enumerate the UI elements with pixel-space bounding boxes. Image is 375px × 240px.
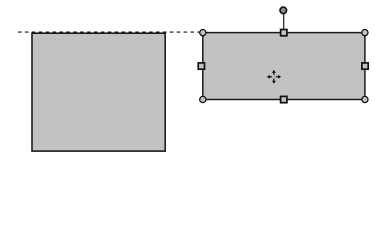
handle right-middle (square) <box>362 63 368 69</box>
rotation knob <box>280 7 287 14</box>
left square shape <box>32 33 165 151</box>
down arrow <box>272 78 276 83</box>
handle top-left (circle) <box>200 29 206 35</box>
handle left-middle (square) <box>198 63 204 69</box>
left arrow <box>267 75 272 79</box>
handle bottom-middle (square) <box>281 96 287 102</box>
up arrow <box>272 70 276 75</box>
guide dashed line <box>18 31 199 33</box>
canvas background <box>0 0 375 160</box>
right arrow <box>276 75 281 79</box>
move cursor (4-way arrows) <box>267 70 281 84</box>
handle bottom-left (circle) <box>200 96 206 102</box>
handle bottom-right (circle) <box>362 96 368 102</box>
selection rectangle shape <box>203 33 365 100</box>
rotation handle stem <box>283 14 285 30</box>
handle top-middle (square) <box>281 30 287 36</box>
handle top-right (circle) <box>362 29 368 35</box>
